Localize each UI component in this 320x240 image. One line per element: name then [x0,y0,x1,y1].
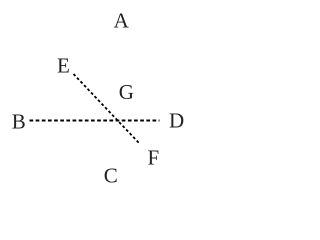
svg-text:D: D [169,109,184,133]
svg-text:B: B [12,110,26,134]
svg-text:G: G [119,80,134,104]
svg-text:E: E [57,54,70,78]
svg-text:A: A [114,9,130,33]
svg-text:C: C [104,163,118,187]
svg-text:F: F [148,146,160,170]
